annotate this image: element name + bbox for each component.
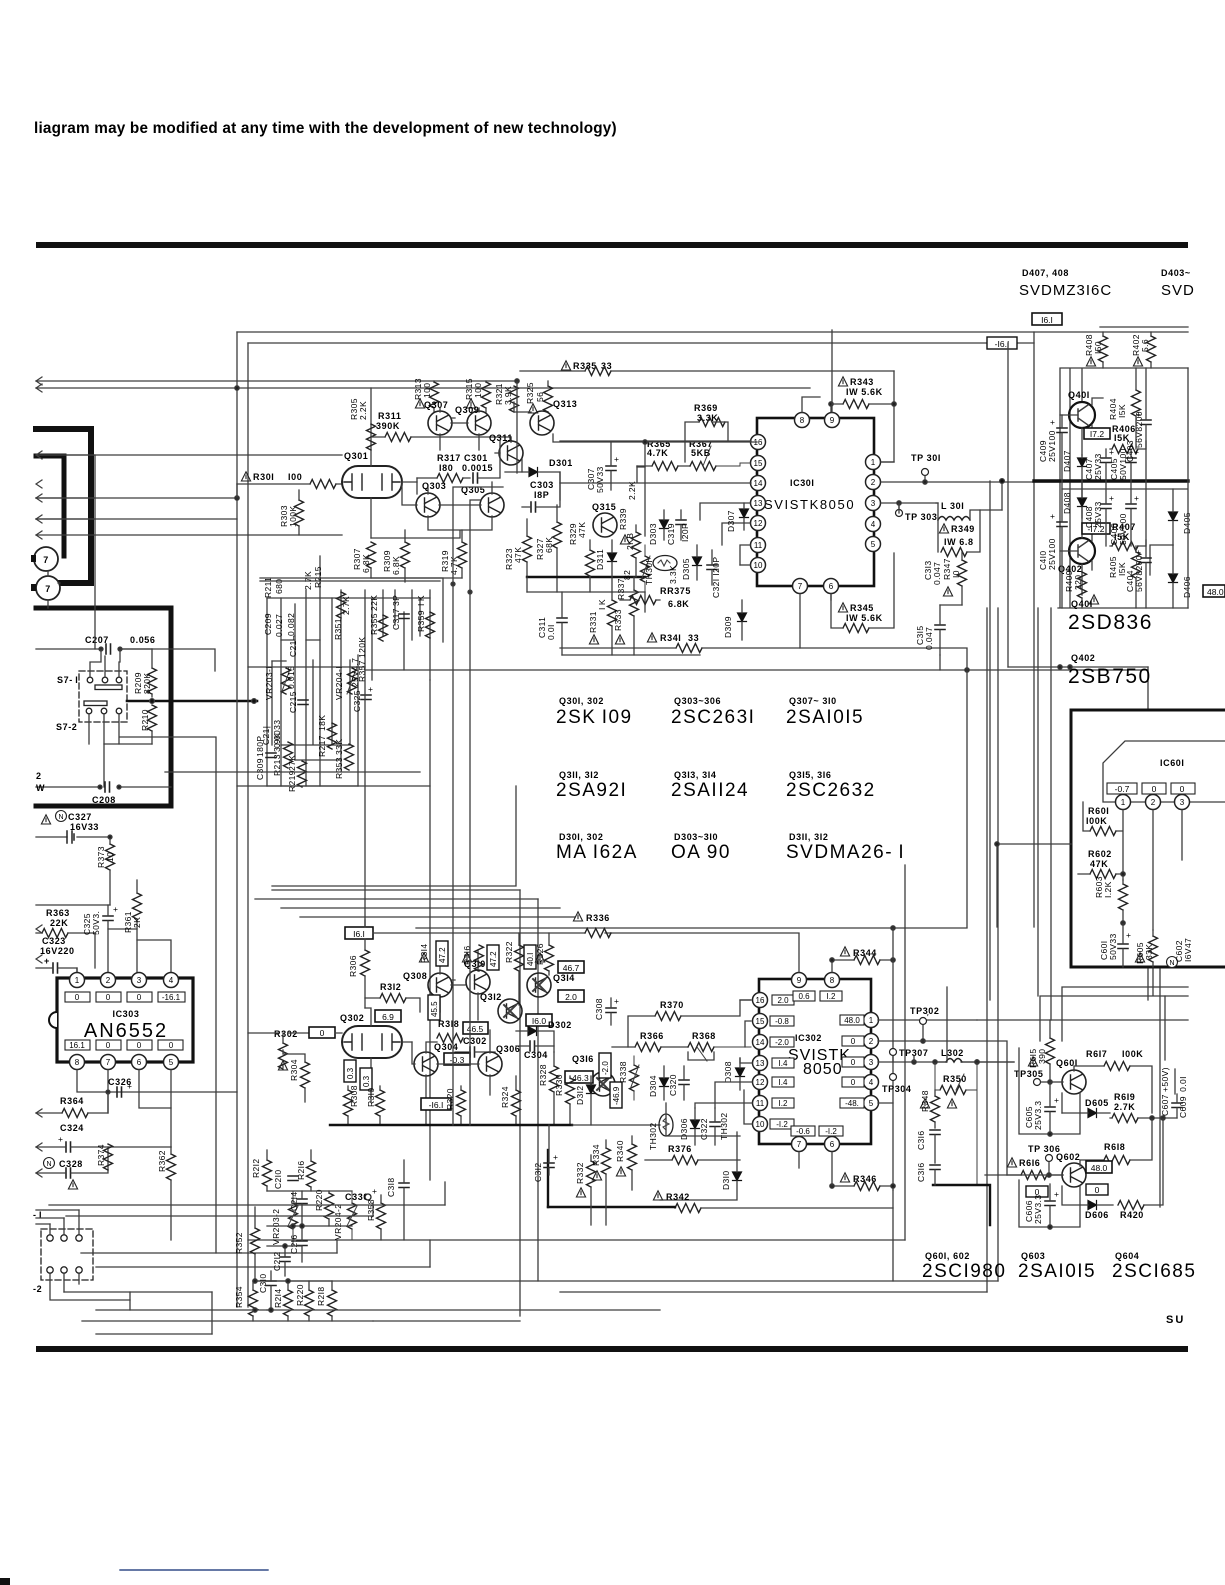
svg-text:C215: C215 — [288, 691, 298, 713]
resistor R322 — [504, 933, 524, 1005]
svg-text:8: 8 — [800, 416, 805, 425]
svg-text:48.0: 48.0 — [1207, 587, 1224, 597]
svg-text:2.7K: 2.7K — [1114, 1102, 1135, 1112]
svg-text:6.9: 6.9 — [382, 1012, 394, 1022]
resistor R311 390K — [371, 411, 511, 442]
svg-text:I6V47: I6V47 — [1183, 938, 1193, 962]
transistor Q308 — [403, 971, 452, 997]
testpoint TP301 — [911, 453, 941, 482]
svg-text:R306: R306 — [348, 955, 358, 977]
value box 47.2 b — [487, 945, 499, 970]
shield outer thick — [36, 429, 91, 583]
svg-text:C302: C302 — [463, 1036, 487, 1046]
svg-text:14: 14 — [756, 1038, 765, 1047]
svg-text:2.0: 2.0 — [777, 996, 789, 1005]
capacitor C317 3P — [391, 595, 409, 630]
svg-text:IW 6.8: IW 6.8 — [944, 537, 974, 547]
capacitor C324 — [36, 1123, 171, 1152]
svg-text:R6I8: R6I8 — [1104, 1142, 1125, 1152]
capacitor C304 — [516, 1041, 554, 1060]
svg-text:Q30I, 302: Q30I, 302 — [559, 696, 604, 706]
value box 2.0 — [558, 990, 584, 1002]
wire pin13 row stub — [700, 503, 750, 520]
parts table row1 Q307 2SA1015 — [786, 696, 864, 728]
svg-text:R308: R308 — [349, 1085, 359, 1107]
svg-text:+: + — [1126, 930, 1131, 940]
transistor Q311 — [489, 433, 523, 465]
svg-text:6.8K: 6.8K — [668, 599, 689, 609]
svg-text:Q3II, 3I2: Q3II, 3I2 — [559, 770, 599, 780]
svg-text:R6I7: R6I7 — [1086, 1049, 1107, 1059]
svg-text:0.047: 0.047 — [924, 627, 934, 650]
wire pin2 right long — [881, 481, 1060, 483]
wire y865 long — [272, 786, 516, 886]
resistor R318 46.5 — [437, 1019, 488, 1043]
wire x967 long — [966, 670, 968, 927]
capacitor C607 C609 — [1160, 1067, 1188, 1118]
svg-text:-I.2: -I.2 — [776, 1120, 788, 1129]
value box 16.0 — [526, 1014, 552, 1026]
svg-text:2K: 2K — [132, 917, 142, 928]
svg-text:1: 1 — [869, 1016, 874, 1025]
svg-text:TP 303: TP 303 — [905, 512, 937, 522]
capacitor C606 25V3.3 — [1024, 1184, 1059, 1227]
svg-text:Q40I: Q40I — [1068, 390, 1090, 400]
svg-text:9: 9 — [797, 976, 802, 985]
svg-text:2SCI685: 2SCI685 — [1112, 1261, 1196, 1282]
testpoint TP302 — [910, 1006, 940, 1043]
resistor R314 47.2 box — [419, 941, 448, 966]
svg-text:I6.I: I6.I — [1041, 315, 1053, 325]
resistor R338 — [618, 1056, 639, 1100]
svg-text:-I6.I: -I6.I — [429, 1100, 444, 1110]
svg-text:D408: D408 — [1062, 492, 1072, 514]
svg-text:D308: D308 — [723, 1061, 733, 1083]
svg-text:0: 0 — [106, 1041, 111, 1050]
resistor R309 6.8K — [382, 530, 410, 578]
svg-text:D302: D302 — [548, 1020, 572, 1030]
capacitor C312 — [533, 1125, 558, 1182]
svg-text:I.2K: I.2K — [1103, 881, 1113, 898]
svg-text:R339: R339 — [618, 508, 628, 530]
svg-text:AN6552: AN6552 — [84, 1020, 168, 1042]
resistor R214 — [273, 1281, 293, 1321]
connector dashed box -1 -2 — [41, 1229, 93, 1280]
svg-text:R345: R345 — [850, 603, 874, 613]
IC302 value boxes bottom — [791, 1126, 843, 1136]
svg-text:R369: R369 — [694, 403, 718, 413]
svg-text:2.0: 2.0 — [565, 992, 577, 1002]
svg-text:I5K: I5K — [1117, 404, 1127, 418]
svg-text:IC60I: IC60I — [1160, 758, 1185, 768]
svg-text:10: 10 — [105, 852, 115, 862]
capacitor C316 a — [916, 1130, 940, 1163]
svg-text:9: 9 — [830, 416, 835, 425]
resistor R334 — [591, 1140, 611, 1225]
resistor R308 — [344, 1085, 360, 1125]
svg-text:I.4: I.4 — [779, 1078, 788, 1087]
wire Q302 top bottom — [335, 1008, 412, 1102]
svg-text:Q309: Q309 — [455, 405, 479, 415]
wire Q308-Q310 — [440, 950, 478, 1020]
svg-text:+: + — [127, 1081, 132, 1091]
resistor R367 5KB — [689, 439, 750, 471]
svg-text:+: + — [1054, 1189, 1059, 1199]
resistor R321 3.9K — [494, 383, 519, 412]
svg-text:R2I2: R2I2 — [251, 1158, 261, 1178]
parts table row2 Q311 2SA921 — [556, 770, 627, 801]
bottom thick bar — [36, 1346, 1188, 1352]
resistor R359 1K — [416, 595, 435, 638]
diode D408 zener — [1062, 481, 1087, 518]
svg-text:100: 100 — [473, 383, 483, 398]
svg-text:S7- I: S7- I — [57, 675, 78, 685]
value box -16.1 mid — [421, 1098, 451, 1110]
parts table row1 Q301 2SK109 — [556, 696, 633, 728]
svg-text:R349: R349 — [951, 524, 975, 534]
resistor R366 — [612, 1031, 688, 1052]
svg-text:R331: R331 — [588, 611, 598, 633]
svg-text:2SC2632: 2SC2632 — [786, 780, 876, 801]
capacitor C601 50V33 — [1099, 923, 1131, 967]
svg-text:R328: R328 — [538, 1064, 548, 1086]
svg-text:R317: R317 — [437, 453, 461, 463]
resistor R306 — [348, 939, 370, 1008]
wire long vertical x248 — [247, 343, 249, 1307]
svg-text:D30I, 302: D30I, 302 — [559, 832, 603, 842]
svg-text:+: + — [113, 904, 118, 914]
capacitor C410 25V100 — [1038, 481, 1067, 608]
svg-text:48.0: 48.0 — [844, 1016, 860, 1025]
svg-text:4: 4 — [871, 520, 876, 529]
svg-text:R34I: R34I — [660, 633, 681, 643]
wire IC303 pin6 down — [139, 1070, 171, 1108]
transistor Q309 — [455, 405, 491, 435]
parts table row2 Q315 2SC2632 — [786, 770, 876, 801]
svg-text:L302: L302 — [941, 1048, 964, 1058]
resistor R407 15K — [1110, 522, 1146, 551]
resistor R331 1K — [588, 592, 617, 655]
resistor R220 a — [295, 1281, 314, 1321]
top thick bar — [36, 242, 1188, 248]
svg-text:25V3.3: 25V3.3 — [1033, 1195, 1043, 1224]
svg-text:R219: R219 — [287, 770, 297, 792]
value box 45.5 — [428, 995, 440, 1020]
resistor R324 — [500, 1076, 521, 1125]
wire pin10 stub — [740, 564, 750, 566]
resistor R409 220 — [1064, 570, 1099, 608]
svg-text:SVDMA26- I: SVDMA26- I — [786, 842, 905, 863]
resistor R619 2.7K — [1110, 1092, 1177, 1123]
svg-text:13: 13 — [756, 1059, 765, 1068]
svg-text:MA I62A: MA I62A — [556, 842, 638, 863]
IC301 left pins 16-10 — [751, 435, 766, 450]
svg-text:R60I: R60I — [1088, 806, 1109, 816]
parts table row3 D311 SVDMA26-1 — [786, 832, 905, 863]
capacitor C325 25V4.7 — [350, 658, 373, 712]
resistor R376 — [645, 1144, 740, 1165]
resistor R342 — [653, 1191, 893, 1213]
wire y519 row — [36, 518, 237, 520]
svg-text:Q3I5, 3I6: Q3I5, 3I6 — [789, 770, 831, 780]
svg-text:N: N — [46, 1161, 51, 1168]
wire Q401 leads — [1060, 398, 1103, 455]
svg-text:25V100: 25V100 — [1047, 538, 1057, 570]
IC302 value boxes right col — [840, 1015, 864, 1108]
svg-text:D305: D305 — [681, 558, 691, 580]
svg-text:8: 8 — [75, 1058, 80, 1067]
wire IC303 pin feeds — [77, 929, 171, 972]
svg-text:0: 0 — [320, 1028, 325, 1038]
resistor R355 22K — [369, 595, 388, 641]
value box 40.1 — [524, 945, 536, 969]
wire x520 x538 drops — [520, 890, 538, 1316]
value box 48.0 q602 — [1086, 1161, 1112, 1173]
svg-text:C304: C304 — [524, 1050, 548, 1060]
svg-text:L 30I: L 30I — [941, 501, 964, 511]
svg-text:VR204-2: VR204-2 — [333, 1204, 343, 1240]
wire right col drops — [1148, 969, 1175, 1207]
svg-text:I00K: I00K — [1122, 1049, 1143, 1059]
svg-text:6: 6 — [830, 1140, 835, 1149]
testpoint TP306 — [1028, 1144, 1060, 1175]
svg-text:Q3I6: Q3I6 — [572, 1054, 594, 1064]
capacitor C320 — [668, 1066, 689, 1100]
transistor Q601 — [1050, 1058, 1086, 1094]
wire shield to S7 box thick L — [36, 608, 171, 806]
svg-text:11: 11 — [756, 1099, 765, 1108]
svg-text:2: 2 — [1151, 798, 1156, 807]
svg-text:R337: R337 — [616, 578, 626, 600]
parts table row1 Q303 2SC2631 — [671, 696, 755, 728]
value box 0 — [309, 1027, 335, 1038]
svg-text:Q307: Q307 — [424, 400, 448, 410]
wire pin11 stub — [740, 545, 750, 565]
svg-text:Q303: Q303 — [422, 481, 446, 491]
svg-text:R6I6: R6I6 — [1019, 1158, 1040, 1168]
value box 6.9 — [375, 1010, 401, 1022]
wire pin1 right — [881, 461, 894, 463]
svg-text:R220: R220 — [295, 1284, 305, 1306]
wire switch bottom links — [89, 714, 119, 744]
capacitor C405 50V100 — [1109, 447, 1139, 481]
svg-text:0.015: 0.015 — [286, 666, 296, 689]
svg-text:R334: R334 — [591, 1144, 601, 1166]
wire long y667 — [365, 669, 1148, 671]
resistor R219 27K — [287, 755, 307, 792]
resistor R605 33K — [1135, 930, 1158, 967]
IC301 labels — [764, 478, 855, 512]
resistor R340 — [615, 1136, 637, 1190]
diode D304 — [648, 1066, 669, 1100]
svg-text:R215: R215 — [313, 566, 323, 588]
value box -16.1 — [987, 337, 1017, 349]
resistor R353 33K — [334, 739, 354, 779]
svg-text:R340: R340 — [615, 1140, 625, 1162]
capacitor C605 25V3.3 — [1024, 1082, 1059, 1134]
svg-text:R363: R363 — [46, 908, 70, 918]
capacitor C313 0.047 — [923, 560, 942, 585]
svg-text:25V3.3: 25V3.3 — [1033, 1101, 1043, 1130]
thick rail y481 — [1034, 479, 1188, 482]
value box -48.0 — [1203, 585, 1225, 597]
corner mark bottom left — [0, 1578, 10, 1585]
svg-text:68K: 68K — [544, 537, 554, 553]
svg-text:C303: C303 — [530, 480, 554, 490]
svg-text:Q60I, 602: Q60I, 602 — [925, 1251, 970, 1261]
capacitor C406 50V100 — [1109, 481, 1139, 546]
svg-text:VR203-2: VR203-2 — [271, 1209, 281, 1245]
svg-text:C320: C320 — [668, 1074, 678, 1096]
wire x216 drop — [120, 737, 216, 1253]
svg-text:2SCI980: 2SCI980 — [922, 1261, 1006, 1282]
svg-text:22K: 22K — [50, 918, 68, 928]
label N C327 16V33 — [56, 811, 100, 833]
wire x1007 Q602 base — [1007, 1174, 1063, 1176]
resistor R344 — [830, 947, 895, 965]
wire pin2 row — [878, 1041, 1007, 1175]
capacitor C403 56V8200 — [1125, 368, 1151, 481]
junction dots frame — [451, 582, 455, 586]
resistor R358 — [366, 1195, 386, 1240]
wire Q602 bottom rail — [1019, 1180, 1080, 1227]
wire pin12 row stub — [722, 523, 750, 545]
resistor R302 — [248, 1029, 308, 1070]
wire y1281 long — [255, 1280, 998, 1282]
svg-text:C207: C207 — [85, 635, 109, 645]
svg-text:2SAII24: 2SAII24 — [671, 780, 749, 801]
svg-text:7: 7 — [106, 1058, 111, 1067]
svg-text:C208: C208 — [92, 795, 116, 805]
resistor R616 — [985, 1158, 1063, 1180]
svg-text:-46.9: -46.9 — [612, 1086, 621, 1105]
wire C207 row — [36, 649, 215, 671]
svg-text:+: + — [1050, 511, 1055, 521]
warning triangle C327 — [41, 815, 50, 824]
svg-text:R355: R355 — [369, 613, 379, 635]
transistor Q303 — [416, 481, 446, 517]
svg-text:R354: R354 — [234, 1286, 244, 1308]
svg-text:0.6: 0.6 — [798, 992, 810, 1001]
svg-text:2: 2 — [36, 771, 42, 781]
diode D302 — [516, 1020, 572, 1052]
wire x443 — [260, 578, 443, 642]
svg-text:D406: D406 — [1182, 576, 1192, 598]
wire bottom-left rows — [49, 1205, 660, 1334]
wire Q402 leads — [1060, 481, 1092, 595]
svg-text:R602: R602 — [1088, 849, 1112, 859]
wire inner frame corner b — [470, 500, 481, 1125]
svg-text:47.2: 47.2 — [438, 947, 447, 963]
svg-text:0: 0 — [851, 1058, 856, 1067]
svg-text:SVISTK8050: SVISTK8050 — [764, 497, 855, 512]
svg-text:+: + — [1109, 447, 1114, 457]
svg-text:4: 4 — [869, 1078, 874, 1087]
svg-text:C32I I20P: C32I I20P — [711, 557, 721, 598]
potentiometer VR204-2 — [333, 1191, 357, 1240]
label C209 0.027 — [263, 613, 284, 637]
svg-text:R366: R366 — [640, 1031, 664, 1041]
diode D309 — [723, 600, 747, 640]
IC302 value boxes left col — [770, 995, 794, 1129]
wire y1321b long — [373, 1320, 520, 1322]
svg-text:120K: 120K — [357, 637, 367, 658]
blue underline mark bottom left — [120, 1569, 268, 1571]
svg-text:3: 3 — [871, 499, 876, 508]
capacitor C301 0.0015 — [417, 440, 500, 494]
capacitor C216 — [289, 1226, 307, 1262]
resistor R326 — [535, 933, 554, 975]
svg-text:2SK I09: 2SK I09 — [556, 707, 633, 728]
diode D303 — [648, 510, 669, 545]
svg-text:11: 11 — [754, 541, 763, 550]
resistor R354 — [234, 1281, 258, 1321]
resistor R601 100K — [1083, 802, 1123, 880]
svg-text:3.3K: 3.3K — [668, 565, 678, 584]
svg-text:TH30I: TH30I — [644, 560, 654, 585]
resistor R303 100K — [279, 490, 304, 535]
svg-text:45.5: 45.5 — [430, 1001, 439, 1017]
forest verticals — [267, 556, 430, 786]
wire bottom verticals — [337, 865, 905, 1281]
value box -17.2 — [1082, 523, 1110, 534]
svg-text:15: 15 — [756, 1017, 765, 1026]
svg-text:47K: 47K — [577, 522, 587, 538]
svg-text:13: 13 — [754, 499, 763, 508]
wire Q601 bottom rail — [1019, 1048, 1080, 1134]
wire long y927 — [416, 927, 967, 929]
left edge entry arrows — [36, 377, 42, 1177]
value box 16.1 mid — [345, 927, 373, 939]
svg-text:I80: I80 — [439, 463, 453, 473]
svg-text:3: 3 — [869, 1058, 874, 1067]
resistor R420 — [1118, 1118, 1163, 1220]
svg-text:0.047: 0.047 — [932, 562, 942, 585]
svg-text:47K: 47K — [1090, 859, 1108, 869]
svg-text:Q604: Q604 — [1115, 1251, 1139, 1261]
svg-text:R322: R322 — [504, 941, 514, 963]
resistor R363 22K — [36, 908, 95, 938]
label D403 SVD — [1161, 268, 1195, 299]
svg-text:I6.0: I6.0 — [532, 1016, 546, 1026]
wire R209 top to C207 — [120, 648, 152, 650]
svg-text:1: 1 — [75, 976, 80, 985]
resistor R345 1W 5.6K — [831, 553, 894, 633]
IC302 left pins 16-10 — [753, 993, 768, 1008]
svg-text:47K: 47K — [513, 547, 523, 563]
svg-text:I20P: I20P — [680, 523, 690, 542]
svg-text:C2I6: C2I6 — [289, 1234, 299, 1254]
capacitor C309 180P — [255, 736, 276, 780]
svg-text:-0.8: -0.8 — [775, 1017, 789, 1026]
resistor R212 — [251, 1150, 272, 1191]
resistor R364 — [36, 1092, 108, 1118]
svg-text:D605: D605 — [1085, 1098, 1109, 1108]
svg-text:C3I2: C3I2 — [533, 1162, 543, 1182]
svg-text:D3I0: D3I0 — [721, 1170, 731, 1190]
capacitor C409 25V100 — [1038, 415, 1067, 481]
svg-text:D3II, 3I2: D3II, 3I2 — [789, 832, 828, 842]
resistor R316 — [462, 945, 484, 971]
svg-text:C21¬: C21¬ — [288, 635, 298, 657]
svg-text:7: 7 — [798, 582, 803, 591]
svg-text:TP3̞02: TP3̞02 — [910, 1006, 940, 1016]
value box 0 a — [1026, 1186, 1048, 1197]
wire y535 left — [36, 534, 248, 536]
svg-text:D3I2: D3I2 — [575, 1085, 585, 1105]
value boxes 0.3 0.3 — [344, 1060, 356, 1082]
svg-text:I.2: I.2 — [779, 1099, 788, 1108]
